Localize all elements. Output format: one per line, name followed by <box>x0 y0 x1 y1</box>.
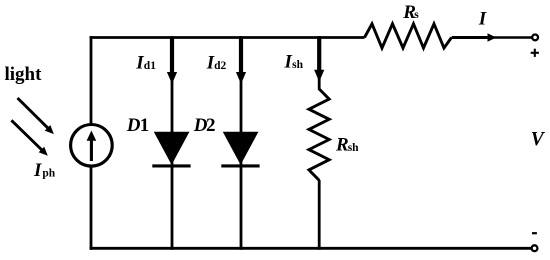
resistor Rsh <box>309 89 329 180</box>
terminal + node <box>532 35 538 41</box>
svg-text:d2: d2 <box>214 60 226 72</box>
svg-text:2: 2 <box>206 115 216 136</box>
current arrow Id1 <box>167 37 177 84</box>
resistor Rs <box>365 24 452 48</box>
terminal - node <box>532 245 538 251</box>
plus sign <box>531 49 539 57</box>
svg-text:I: I <box>33 160 42 181</box>
wire Rsh branch lower <box>318 180 321 250</box>
svg-text:light: light <box>5 64 43 85</box>
svg-text:D: D <box>126 115 141 136</box>
wire top horizontal <box>90 36 365 39</box>
wire left vertical lower <box>90 166 93 250</box>
wire left vertical upper <box>90 36 93 125</box>
current arrow Id2 <box>236 37 246 84</box>
diode D2 <box>221 132 259 166</box>
wire bottom horizontal <box>90 247 533 250</box>
svg-text:sh: sh <box>348 142 359 154</box>
diode D1 <box>152 132 190 166</box>
wire top right <box>452 36 533 38</box>
svg-text:I: I <box>478 8 487 29</box>
current arrow Ish <box>314 37 324 82</box>
current source Iph <box>71 125 113 167</box>
light arrow 2 <box>11 120 47 156</box>
svg-text:V: V <box>531 129 546 150</box>
light arrow 1 <box>18 98 54 134</box>
svg-text:ph: ph <box>42 168 55 180</box>
wire D1 branch <box>171 36 174 250</box>
wire Rsh branch upper <box>318 36 321 90</box>
svg-text:s: s <box>414 9 419 21</box>
current arrow I <box>452 33 496 41</box>
svg-text:sh: sh <box>292 59 303 71</box>
wire D2 branch <box>240 36 243 250</box>
svg-text:1: 1 <box>140 115 150 136</box>
svg-text:R: R <box>335 135 349 156</box>
minus sign <box>532 232 537 234</box>
svg-text:d1: d1 <box>144 60 156 72</box>
